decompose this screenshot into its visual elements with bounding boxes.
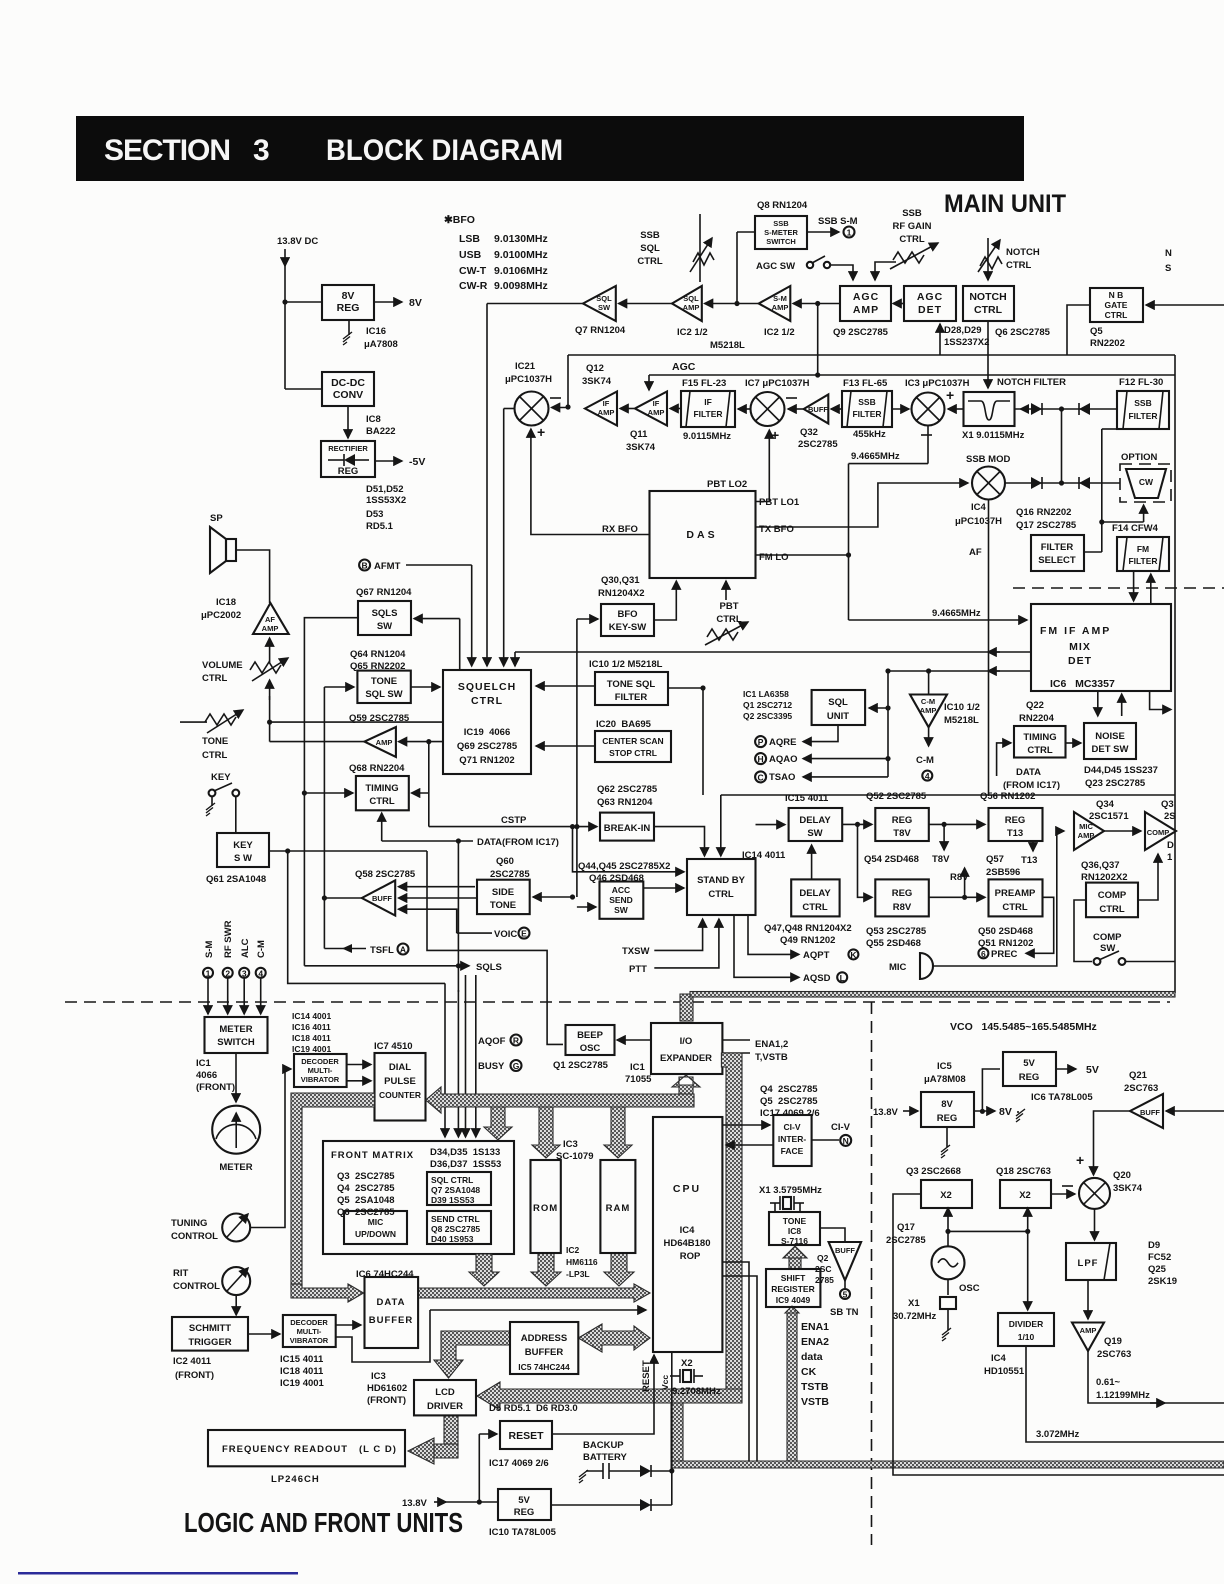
bus: branch down into ROM [532, 1107, 560, 1158]
svg-text:DET SW: DET SW [1092, 744, 1129, 755]
SQL UNIT IC1 Q1 Q2 [812, 690, 866, 725]
svg-text:KEY-SW: KEY-SW [609, 622, 647, 633]
svg-text:KEY: KEY [211, 772, 231, 783]
FM IF amp line 671 [888, 670, 1031, 672]
svg-text:LCD: LCD [435, 1387, 455, 1398]
svg-text:9.0106MHz: 9.0106MHz [494, 265, 548, 277]
C TSAO [755, 771, 766, 782]
svg-text:2S: 2S [1164, 811, 1176, 822]
svg-text:SECTION: SECTION [104, 134, 231, 167]
svg-text:MIC: MIC [889, 962, 907, 973]
svg-text:AQPT: AQPT [803, 950, 830, 961]
FILTER SELECT Q16 Q17 [1031, 535, 1084, 571]
svg-text:Q3 2SC2785: Q3 2SC2785 [337, 1171, 395, 1182]
svg-text:Q5 2SA1048: Q5 2SA1048 [337, 1195, 395, 1206]
svg-text:DC-DC: DC-DC [331, 377, 365, 389]
title bar [76, 116, 1024, 181]
svg-text:Q17: Q17 [897, 1222, 915, 1233]
TIMING CTRL Q68 [356, 776, 409, 810]
FRONT MATRIX box [323, 1141, 514, 1254]
NOTCH CTRL box Q6 [963, 286, 1014, 321]
svg-text:SW: SW [1100, 943, 1115, 954]
svg-text:μPC2002: μPC2002 [201, 610, 241, 621]
svg-text:SQL: SQL [828, 697, 848, 708]
svg-text:Q55 2SD468: Q55 2SD468 [866, 938, 921, 949]
svg-text:IC18 4011: IC18 4011 [292, 1033, 331, 1043]
svg-text:COUNTER: COUNTER [379, 1090, 421, 1100]
svg-text:CI-V: CI-V [831, 1122, 851, 1133]
svg-text:D5 RD5.1 D6 RD3.0: D5 RD5.1 D6 RD3.0 [489, 1403, 578, 1414]
delay sw to reg t8v [842, 823, 872, 825]
svg-text:Q9 2SC2785: Q9 2SC2785 [833, 327, 889, 338]
svg-text:CENTER SCAN: CENTER SCAN [602, 736, 663, 746]
BFO KEY-SW Q30 Q31 [601, 604, 654, 636]
right-edge vertical net [1174, 355, 1176, 993]
svg-text:AMP: AMP [1078, 831, 1095, 840]
bus: elbow from CPU riser into I/O expander [680, 994, 693, 1021]
svg-text:REG: REG [892, 815, 913, 826]
svg-text:PBT LO2: PBT LO2 [707, 479, 747, 490]
svg-text:Q20: Q20 [1113, 1170, 1131, 1181]
bus: front matrix down to data bus [469, 1254, 499, 1286]
svg-text:DRIVER: DRIVER [427, 1401, 463, 1412]
svg-text:S-M: S-M [204, 941, 215, 959]
svg-text:NOISE: NOISE [1095, 731, 1125, 742]
svg-text:AGC SW: AGC SW [756, 261, 795, 272]
svg-text:Q25: Q25 [1148, 1264, 1167, 1275]
svg-text:(FRONT): (FRONT) [175, 1370, 214, 1381]
svg-text:2SB596: 2SB596 [986, 867, 1020, 878]
svg-text:IC10 1/2: IC10 1/2 [944, 702, 980, 713]
svg-text:2SC1571: 2SC1571 [1089, 811, 1129, 822]
svg-text:Q11: Q11 [630, 429, 648, 440]
svg-text:IC14 4001: IC14 4001 [292, 1011, 331, 1021]
REG R8V Q53 Q55 [875, 879, 929, 916]
5V reg diode to Vcc [551, 1504, 640, 1506]
svg-text:TIMING: TIMING [365, 783, 398, 794]
bus: I/O expander to main data bus (up arrow) [672, 1075, 700, 1087]
svg-text:2SC763: 2SC763 [1124, 1083, 1158, 1094]
svg-text:REG: REG [1019, 1072, 1040, 1083]
svg-text:SQUELCH: SQUELCH [458, 681, 516, 693]
svg-text:SWITCH: SWITCH [766, 237, 796, 246]
node 3 [239, 968, 249, 978]
svg-text:AMP: AMP [683, 303, 700, 312]
svg-text:MIC: MIC [368, 1217, 384, 1227]
svg-text:IC8: IC8 [788, 1226, 802, 1236]
MIC UP/DOWN sub-box [344, 1211, 407, 1244]
svg-text:AMP: AMP [598, 408, 615, 417]
AMP Q19 [1072, 1323, 1104, 1352]
svg-text:BACKUP: BACKUP [583, 1440, 624, 1451]
svg-text:8V: 8V [999, 1106, 1012, 1118]
SQL AMP IC2 [672, 286, 702, 321]
svg-text:FC52: FC52 [1148, 1252, 1171, 1263]
svg-text:UP/DOWN: UP/DOWN [355, 1229, 396, 1239]
wire IC7 to filter [738, 408, 751, 410]
ROM [531, 1160, 561, 1253]
SSB FILTER FL-65 [842, 391, 892, 427]
wire to dc-dc [285, 388, 322, 390]
svg-text:RESET: RESET [508, 1430, 544, 1442]
svg-text:13.8V: 13.8V [873, 1107, 898, 1118]
svg-text:ACC: ACC [612, 885, 630, 895]
svg-text:T8V: T8V [893, 828, 911, 839]
svg-text:DELAY: DELAY [799, 888, 831, 899]
svg-text:(FRONT): (FRONT) [196, 1082, 235, 1093]
svg-text:IC3 μPC1037H: IC3 μPC1037H [905, 378, 970, 389]
svg-text:3SK74: 3SK74 [626, 442, 656, 453]
svg-text:Q6 2SC2785: Q6 2SC2785 [995, 327, 1051, 338]
svg-text:Q7 RN1204: Q7 RN1204 [575, 325, 626, 336]
svg-text:μA78M08: μA78M08 [924, 1074, 966, 1085]
METER [212, 1106, 260, 1154]
bus: LCD driver down to readout [444, 1415, 458, 1444]
svg-text:OSC: OSC [959, 1283, 980, 1294]
svg-text:PULSE: PULSE [384, 1076, 416, 1087]
svg-text:C-M: C-M [921, 697, 935, 706]
svg-text:REG: REG [1005, 815, 1026, 826]
svg-text:SELECT: SELECT [1038, 555, 1076, 566]
svg-text:CTRL: CTRL [716, 614, 742, 625]
svg-text:HM6116: HM6116 [566, 1257, 598, 1267]
SEND CTRL sub-box [427, 1211, 491, 1244]
bus: left loop around front matrix [291, 1093, 375, 1288]
RX BFO to IC21 + input [531, 429, 650, 535]
svg-text:Q60: Q60 [496, 856, 514, 867]
svg-text:MULTI-: MULTI- [297, 1327, 322, 1336]
bus: down to bottom rail [671, 1403, 683, 1461]
timing bottom feed from data line [381, 813, 383, 841]
FM IF amp audio to squelch [515, 651, 1031, 653]
svg-text:IC2 1/2: IC2 1/2 [764, 327, 795, 338]
svg-text:9.4665MHz: 9.4665MHz [932, 608, 981, 619]
SCHMITT TRIGGER IC2 [172, 1317, 248, 1351]
SQL SW Q7 [583, 286, 616, 321]
svg-text:IC9 4049: IC9 4049 [776, 1295, 811, 1305]
svg-text:CTRL: CTRL [471, 695, 503, 707]
svg-text:(FRONT): (FRONT) [367, 1395, 406, 1406]
svg-text:CTRL: CTRL [899, 234, 925, 245]
svg-text:SW: SW [377, 621, 392, 632]
filter select feed to CW [1102, 521, 1144, 523]
svg-text:L: L [840, 973, 845, 983]
svg-text:IC5: IC5 [937, 1061, 953, 1072]
svg-text:SW: SW [598, 303, 611, 312]
svg-text:CONTROL: CONTROL [171, 1231, 218, 1242]
BUFF Q32 [804, 395, 829, 424]
svg-text:BA222: BA222 [366, 426, 396, 437]
svg-text:AF: AF [265, 615, 275, 624]
node 1 [203, 968, 213, 978]
svg-text:AMP: AMP [772, 303, 789, 312]
svg-text:4066: 4066 [196, 1070, 217, 1081]
svg-text:REGISTER: REGISTER [771, 1284, 814, 1294]
TIMING CTRL Q22 [1014, 726, 1066, 758]
wire det to amp [893, 303, 904, 305]
reg r8v out [929, 896, 985, 898]
buff inputs [399, 886, 476, 888]
svg-text:IF: IF [653, 399, 660, 408]
svg-text:D53: D53 [366, 509, 383, 520]
svg-text:IC14 4011: IC14 4011 [742, 850, 786, 861]
svg-text:(FROM IC17): (FROM IC17) [1003, 780, 1060, 791]
svg-text:SCHMITT: SCHMITT [189, 1323, 231, 1334]
svg-text:CTRL: CTRL [1006, 260, 1032, 271]
svg-text:Q1 2SC2785: Q1 2SC2785 [553, 1060, 609, 1071]
svg-text:Q49 RN1202: Q49 RN1202 [780, 935, 835, 946]
wire to meter [235, 1053, 237, 1102]
svg-text:SQLS: SQLS [476, 962, 502, 973]
svg-text:SWITCH: SWITCH [217, 1037, 255, 1048]
svg-text:P: P [758, 737, 764, 747]
svg-text:9.4665MHz: 9.4665MHz [851, 451, 900, 462]
svg-text:IC15 4011: IC15 4011 [785, 793, 829, 804]
ADDRESS BUFFER IC5 [510, 1322, 578, 1374]
svg-text:Q32: Q32 [800, 427, 818, 438]
svg-text:9.0098MHz: 9.0098MHz [494, 280, 548, 292]
svg-text:D51,D52: D51,D52 [366, 484, 404, 495]
svg-text:HD61602: HD61602 [367, 1383, 407, 1394]
SQLS tap [304, 965, 469, 967]
svg-text:Q51 RN1202: Q51 RN1202 [978, 938, 1033, 949]
svg-text:S-7116: S-7116 [781, 1236, 808, 1246]
svg-text:RD5.1: RD5.1 [366, 521, 394, 532]
svg-text:F15 FL-23: F15 FL-23 [682, 378, 726, 389]
svg-text:FILTER: FILTER [852, 409, 881, 419]
svg-text:Q21: Q21 [1129, 1070, 1148, 1081]
svg-text:FILTER: FILTER [693, 409, 722, 419]
svg-text:BUSY: BUSY [478, 1061, 505, 1072]
svg-text:IC10 TA78L005: IC10 TA78L005 [489, 1527, 557, 1538]
svg-text:ROM: ROM [533, 1203, 558, 1214]
svg-text:SHIFT: SHIFT [781, 1273, 806, 1283]
svg-text:CPU: CPU [673, 1183, 701, 1195]
option dashed boundary [1013, 587, 1224, 589]
svg-text:CSTP: CSTP [501, 815, 527, 826]
FREQUENCY READOUT LCD [208, 1430, 405, 1466]
svg-text:VCO 145.5485~165.5485MHz: VCO 145.5485~165.5485MHz [950, 1021, 1097, 1033]
DC-DC converter IC8 [322, 372, 374, 406]
DATA(from IC17) line [382, 840, 473, 842]
AGC AMP Q9 [840, 286, 891, 321]
DATA BUFFER IC6 [365, 1277, 419, 1348]
wire 8V out [374, 301, 402, 303]
bus: CPU to address buffer (double arrow) [578, 1324, 650, 1352]
svg-text:SSB S-M: SSB S-M [818, 216, 858, 227]
svg-text:CI-V: CI-V [784, 1122, 801, 1132]
svg-text:IC5 74HC244: IC5 74HC244 [518, 1362, 570, 1372]
9.4665 LO net [927, 426, 929, 464]
svg-text:1SS53X2: 1SS53X2 [366, 495, 406, 506]
NOTCH FILTER X1 [964, 392, 1015, 426]
svg-text:AQAO: AQAO [769, 754, 798, 765]
svg-text:DIVIDER: DIVIDER [1009, 1319, 1043, 1329]
wire sql sw out to long vertical [487, 303, 583, 305]
svg-text:IC3: IC3 [563, 1139, 578, 1150]
AGC drop into IF amp [648, 375, 650, 390]
AF AMP IC18 [253, 603, 289, 634]
svg-text:Vcc: Vcc [660, 1375, 670, 1390]
STAND BY CTRL [687, 859, 756, 915]
svg-text:1: 1 [206, 968, 211, 978]
C-M AMP triangle [910, 695, 947, 728]
svg-text:DET: DET [1068, 655, 1092, 667]
svg-text:71055: 71055 [625, 1074, 652, 1085]
svg-text:DATA: DATA [377, 1297, 406, 1308]
bus: branch down into front matrix [484, 1107, 512, 1140]
svg-text:9.2708MHz: 9.2708MHz [672, 1386, 721, 1397]
svg-text:IC19 4001: IC19 4001 [280, 1378, 325, 1389]
svg-text:X1 9.0115MHz: X1 9.0115MHz [962, 430, 1025, 441]
svg-text:3SK74: 3SK74 [582, 376, 612, 387]
S-M AMP IC2 [759, 286, 791, 321]
svg-text:Q22: Q22 [1026, 700, 1044, 711]
osc wiring to X2s [947, 1208, 949, 1246]
wire into NB from page edge [1146, 304, 1224, 306]
svg-text:6: 6 [981, 949, 986, 959]
svg-text:K: K [850, 950, 857, 960]
svg-text:REG: REG [338, 466, 359, 477]
svg-text:ENA1: ENA1 [801, 1321, 829, 1333]
FM filter to FM IF amp arrows [1133, 571, 1135, 601]
svg-text:METER: METER [219, 1162, 252, 1173]
X2 Q3 left feedback wire [893, 1194, 1224, 1475]
svg-text:RN2202: RN2202 [1090, 338, 1125, 349]
svg-text:PBT: PBT [720, 601, 739, 612]
wire notch to IC3 [948, 408, 964, 410]
amp output [1088, 1351, 1224, 1403]
svg-text:OPTION: OPTION [1121, 452, 1158, 463]
CPU IC4 [653, 1117, 722, 1352]
svg-text:KEY: KEY [233, 840, 253, 851]
svg-text:F12 FL-30: F12 FL-30 [1119, 377, 1163, 388]
svg-text:CTRL: CTRL [637, 256, 663, 267]
svg-text:TONE SQL: TONE SQL [607, 679, 656, 690]
svg-text:5V: 5V [518, 1495, 530, 1506]
svg-text:AMP: AMP [1080, 1326, 1097, 1335]
svg-text:Q50 2SD468: Q50 2SD468 [978, 926, 1033, 937]
svg-text:TONE: TONE [490, 900, 516, 911]
lpf to amp [1087, 1280, 1089, 1319]
svg-text:AGC: AGC [917, 291, 943, 303]
svg-text:IC6 TA78L005: IC6 TA78L005 [1031, 1092, 1093, 1103]
svg-text:RECTIFIER: RECTIFIER [328, 444, 368, 453]
svg-text:TUNING: TUNING [171, 1218, 207, 1229]
svg-text:COMP: COMP [1098, 890, 1127, 901]
wire S-meter feed [737, 231, 755, 233]
FM IF AMP MIX DET IC6 [1031, 604, 1171, 691]
svg-text:Q18 2SC763: Q18 2SC763 [996, 1166, 1051, 1177]
reset to CPU [552, 1355, 654, 1434]
svg-text:SSB: SSB [640, 230, 660, 241]
svg-text:FILTER: FILTER [1128, 556, 1157, 566]
svg-text:M5218L: M5218L [944, 715, 979, 726]
svg-text:REG: REG [937, 1113, 958, 1124]
svg-text:9.0100MHz: 9.0100MHz [494, 249, 548, 261]
svg-text:USB: USB [459, 249, 482, 261]
svg-text:AQSD: AQSD [803, 973, 831, 984]
svg-text:+: + [946, 387, 954, 403]
wire key net to beep osc [427, 851, 563, 1044]
svg-text:1/10: 1/10 [1018, 1332, 1035, 1342]
8V regulator IC16 [322, 285, 374, 320]
svg-text:X1: X1 [908, 1298, 920, 1309]
H AQAO [755, 753, 766, 764]
node 1 (SSB S-M) [844, 227, 855, 238]
node [282, 299, 287, 304]
svg-text:TSAO: TSAO [769, 772, 795, 783]
mixer Q20 [1079, 1178, 1110, 1209]
svg-text:1: 1 [1167, 852, 1173, 863]
svg-text:AF: AF [969, 547, 982, 558]
svg-text:CW: CW [1139, 477, 1154, 487]
acc to standby [643, 887, 684, 889]
svg-text:T,VSTB: T,VSTB [755, 1052, 788, 1063]
svg-text:Q34: Q34 [1096, 799, 1115, 810]
svg-text:AMP: AMP [376, 738, 393, 747]
svg-text:D44,D45 1SS237: D44,D45 1SS237 [1084, 765, 1158, 776]
svg-text:2SK19: 2SK19 [1148, 1276, 1177, 1287]
svg-text:STAND BY: STAND BY [697, 875, 746, 886]
svg-text:AMP: AMP [853, 304, 879, 316]
svg-text:FILTER: FILTER [1128, 411, 1157, 421]
svg-text:CW-T: CW-T [459, 265, 487, 277]
svg-text:CTRL: CTRL [1105, 310, 1128, 320]
svg-text:13.8V DC: 13.8V DC [277, 236, 318, 247]
svg-text:STOP CTRL: STOP CTRL [609, 748, 657, 758]
svg-text:+: + [1076, 1152, 1084, 1168]
svg-text:S: S [1165, 263, 1171, 274]
bus: shift register to tone box [789, 1258, 801, 1269]
svg-text:IC6 MC3357: IC6 MC3357 [1050, 678, 1115, 690]
ground [348, 320, 350, 335]
AQSD L [734, 915, 799, 977]
svg-text:2SC2785: 2SC2785 [798, 439, 838, 450]
svg-text:IF: IF [603, 399, 610, 408]
FM FILTER F14 [1117, 537, 1169, 571]
svg-text:BEEP: BEEP [577, 1030, 604, 1041]
wire BFO key-sw to DAS [654, 581, 676, 620]
bus: address buffer to LCD driver [434, 1331, 510, 1378]
svg-text:IC2 1/2: IC2 1/2 [677, 327, 708, 338]
svg-text:NOTCH: NOTCH [1006, 247, 1040, 258]
svg-text:T8V: T8V [932, 854, 950, 865]
svg-text:IC17 4069 2/6: IC17 4069 2/6 [489, 1458, 549, 1469]
svg-text:IC2 4011: IC2 4011 [173, 1356, 212, 1367]
svg-text:VIBRATOR: VIBRATOR [301, 1075, 340, 1084]
svg-text:SSB: SSB [1134, 398, 1151, 408]
svg-text:S W: S W [234, 853, 252, 864]
rectifier/reg D51-D53 [321, 441, 375, 477]
svg-text:TIMING: TIMING [1023, 732, 1056, 743]
DAS box [650, 491, 756, 578]
PBT LO1 to IC7 + input [756, 430, 770, 502]
svg-text:Q5: Q5 [1090, 326, 1103, 337]
svg-text:5V: 5V [1086, 1064, 1099, 1076]
vertical joining diode rows [1061, 409, 1063, 483]
svg-text:IC2: IC2 [566, 1245, 580, 1255]
svg-text:Q61 2SA1048: Q61 2SA1048 [206, 874, 266, 885]
TONE SQL SW Q64 Q65 [357, 671, 410, 703]
svg-text:X2: X2 [1019, 1190, 1031, 1201]
SHIFT REGISTER IC9 [766, 1269, 820, 1307]
svg-text:RF SWR: RF SWR [223, 920, 234, 958]
svg-text:SEND CTRL: SEND CTRL [431, 1214, 480, 1224]
wire agcamp to s-m amp [793, 303, 840, 305]
RAM [600, 1160, 635, 1253]
svg-text:Q71 RN1202: Q71 RN1202 [459, 755, 514, 766]
